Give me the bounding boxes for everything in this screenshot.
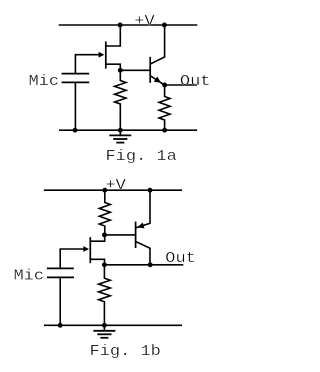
wire : node C to J2 drain [91,235,105,241]
transistor J1 (JFET channel bar) [105,42,107,68]
node : drain riser junction on +V rail [118,23,123,28]
wire : Q2 emitter to +V rail [136,190,150,228]
svg-text:+V: +V [105,177,126,194]
node : collector riser junction on +V rail [162,23,167,28]
node : C1 ground junction [73,128,78,133]
resistor R1 (source resistor) [115,70,126,130]
capacitor C1 top plate [63,73,89,75]
transistor Q1 (NPN base bar) [149,58,151,82]
node : R2 ground junction [162,128,167,133]
wire : Q1 emitter diagonal [151,76,164,85]
wire : +V supply rail (top) [60,24,197,26]
transistor J2 gate arrowhead [83,246,89,252]
ground symbol (bottom circuit) [94,325,114,338]
wire : gate wire from C1 to J1 [75,55,100,74]
wire : ground rail (top circuit) [60,129,197,131]
transistor Q2 emitter arrowhead [137,223,144,229]
node : Q2 emitter junction on +V rail [148,188,153,193]
wire : J2 source to node D [91,259,105,265]
transistor J1 gate arrowhead [99,52,105,58]
wire : Q2 collector to output node [136,242,150,265]
svg-text:Out: Out [180,73,211,90]
node : R1/ground junction [118,128,123,133]
node : R4/ground junction [102,323,107,328]
svg-text:Mic: Mic [13,268,44,285]
capacitor C2 bottom plate [48,276,73,278]
node D : source/output junction [102,262,107,267]
node E : collector/output junction [148,262,153,267]
svg-text:Mic: Mic [29,73,60,90]
wire : J1 source to node A [106,64,121,70]
svg-text:Fig. 1b: Fig. 1b [89,343,160,360]
wire : Q1 collector to +V rail [151,25,165,64]
capacitor C1 bottom plate [63,81,89,83]
transistor Q1 emitter arrowhead [154,77,161,83]
transistor J2 (JFET channel bar) [89,238,91,262]
node B : emitter/output junction [162,83,167,88]
wire : gate wire from C2 to J2 [60,249,84,268]
capacitor C2 top plate [48,267,73,269]
resistor R3 (drain load resistor) [99,190,110,235]
wire : +V supply rail (bottom circuit) [45,189,182,191]
wire : C2 bottom plate to ground rail [59,277,61,325]
wire : output wire [165,84,197,86]
node : R3 junction on +V rail [102,188,107,193]
svg-text:Out: Out [165,250,196,267]
wire : C1 bottom plate to ground rail [74,82,76,130]
wire : node C to Q2 base [105,234,135,236]
wire : output node wire [104,264,182,266]
resistor R4 (source resistor) [99,265,111,326]
svg-text:+V: +V [134,13,155,30]
ground symbol (top circuit) [110,130,130,142]
node A : source/base junction [118,68,123,73]
resistor R2 (emitter resistor) [159,85,170,130]
wire : node A to Q1 base [120,69,149,71]
node : C2 ground junction [58,323,63,328]
svg-text:Fig. 1a: Fig. 1a [105,148,176,165]
wire : ground rail (bottom circuit) [45,324,182,326]
node C : drain/base junction [102,232,107,237]
wire : J1 drain riser to +V rail [106,25,121,46]
transistor Q2 (PNP base bar) [135,222,137,247]
